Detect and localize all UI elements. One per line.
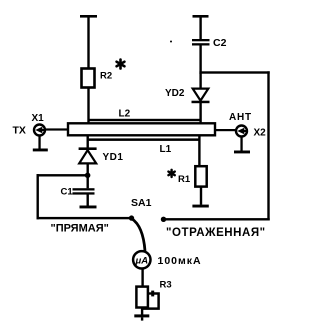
wire X2 stub xyxy=(215,129,237,131)
ground R3 xyxy=(134,314,149,317)
wire X1 stub xyxy=(46,128,69,130)
svg-text:TX: TX xyxy=(13,125,26,137)
svg-text:YD1: YD1 xyxy=(103,152,124,163)
terminal bar top of C2 branch xyxy=(193,15,209,18)
resistor R2 xyxy=(82,69,95,88)
coupled line L1 xyxy=(88,138,199,141)
junction dot xyxy=(85,173,91,179)
wire L1 right drop to R1 xyxy=(198,135,200,167)
resistor R3 xyxy=(136,287,148,308)
diode YD1 xyxy=(79,147,97,175)
diode YD2 xyxy=(192,73,210,124)
wire L1 left drop xyxy=(87,135,89,148)
node switch left contact xyxy=(129,215,134,220)
wire junction to left rail xyxy=(37,174,89,176)
svg-text:YD2: YD2 xyxy=(165,88,185,99)
coupled line L2 xyxy=(88,119,201,121)
wire meter to R3 xyxy=(141,268,143,286)
wire right rail vertical xyxy=(267,71,269,220)
node switch right contact xyxy=(161,217,166,222)
ground X1 xyxy=(38,135,40,149)
wire R2 branch upper xyxy=(87,16,89,69)
svg-text:100мкА: 100мкА xyxy=(158,255,202,267)
ground X2 xyxy=(240,136,242,151)
svg-text:X2: X2 xyxy=(254,128,267,139)
wire left rail bottom xyxy=(37,217,133,219)
wire left rail vertical xyxy=(37,174,39,219)
asterisk near R2 xyxy=(117,60,125,69)
asterisk near R1 xyxy=(168,170,174,177)
R3 wiper tap and loop xyxy=(141,291,158,309)
speck xyxy=(170,41,172,43)
resistor R1 xyxy=(195,166,206,186)
svg-text:SA1: SA1 xyxy=(131,197,152,209)
wire top right horizontal xyxy=(199,71,269,73)
svg-text:μA: μA xyxy=(135,256,149,267)
wire right rail bottom xyxy=(164,218,270,220)
wire R2 branch lower xyxy=(87,88,89,125)
connector X1 xyxy=(34,125,45,136)
svg-text:"ОТРАЖЕННАЯ": "ОТРАЖЕННАЯ" xyxy=(166,227,266,239)
svg-text:C2: C2 xyxy=(213,37,227,49)
wire C2 bottom lead xyxy=(199,46,201,74)
wire C1 bottom lead xyxy=(87,195,89,206)
main coax line rectangle xyxy=(68,123,215,135)
svg-text:R1: R1 xyxy=(178,174,191,185)
terminal bar top of R2 branch xyxy=(80,15,97,18)
switch SA1 arm xyxy=(132,219,146,252)
ground R1 xyxy=(192,205,208,208)
svg-text:R2: R2 xyxy=(100,71,112,82)
svg-text:C1: C1 xyxy=(61,187,74,198)
connector X2 xyxy=(236,126,247,137)
capacitor C1 xyxy=(73,188,95,190)
svg-text:X1: X1 xyxy=(32,113,45,124)
ground C1 xyxy=(80,206,97,209)
svg-text:R3: R3 xyxy=(160,280,172,291)
capacitor C2 xyxy=(192,39,210,41)
svg-text:АНТ: АНТ xyxy=(229,112,252,123)
svg-text:L2: L2 xyxy=(119,109,131,120)
svg-text:"ПРЯМАЯ": "ПРЯМАЯ" xyxy=(51,223,109,235)
wire C2 top lead xyxy=(199,16,201,40)
meter PA1 xyxy=(133,251,150,268)
svg-text:L1: L1 xyxy=(160,144,172,155)
wire YD1 to C1 xyxy=(87,175,89,188)
wire R1 bottom lead xyxy=(200,187,202,205)
wire R3 bottom lead xyxy=(141,308,143,315)
